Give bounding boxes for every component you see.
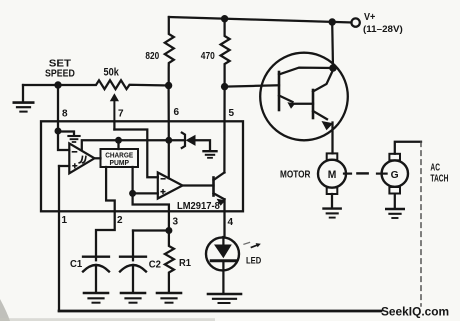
scan smudge bottom left xyxy=(0,299,10,321)
transistor internal Q xyxy=(214,173,226,238)
zener diode internal xyxy=(182,133,217,158)
wire ground to node xyxy=(23,84,58,86)
node pot-820 junction xyxy=(165,82,172,89)
op-amp U1b xyxy=(158,173,183,199)
transistor Q2 xyxy=(313,70,333,153)
shaft dash xyxy=(357,172,367,174)
pin 7 xyxy=(114,109,124,130)
op-amp U1a input comparator xyxy=(58,131,95,173)
svg-text:R1: R1 xyxy=(179,258,191,269)
wire bottom tach return rail xyxy=(59,310,381,313)
wire G to tach bus xyxy=(395,142,421,154)
LED light arrows xyxy=(244,242,261,247)
svg-text:8: 8 xyxy=(62,109,68,120)
label SET SPEED xyxy=(45,58,75,79)
label AC TACH xyxy=(430,163,448,185)
svg-text:6: 6 xyxy=(174,107,180,118)
wire op-amp1 output to pump xyxy=(95,157,101,159)
charge pump box xyxy=(101,149,139,167)
svg-text:4: 4 xyxy=(228,217,234,228)
node pump output xyxy=(129,190,136,197)
svg-text:MOTOR: MOTOR xyxy=(280,170,311,181)
node pin6 zener junction xyxy=(165,137,172,144)
LED D1 xyxy=(206,237,261,303)
transistor Q1 xyxy=(279,68,333,110)
svg-text:(11–28V): (11–28V) xyxy=(363,24,403,35)
svg-text:SPEED: SPEED xyxy=(45,69,75,80)
capacitor C1 xyxy=(70,257,109,303)
svg-text:V+: V+ xyxy=(364,12,375,23)
pin 6 wire xyxy=(169,86,180,141)
svg-text:AC: AC xyxy=(430,163,440,174)
wire pump to pin2 xyxy=(96,167,115,260)
node pin8 internal xyxy=(55,128,62,135)
svg-text:1: 1 xyxy=(62,215,68,226)
ground internal pin8 xyxy=(58,132,80,143)
wire op-amp top feedback to zener rail xyxy=(82,140,185,150)
wire op-amp2 out to transistor base xyxy=(183,184,214,186)
svg-text:SeekIQ.com: SeekIQ.com xyxy=(381,304,449,318)
pin 1 wire xyxy=(59,166,68,311)
terminal V+ xyxy=(351,12,402,35)
wire charge pump top drop xyxy=(117,140,119,149)
svg-text:470: 470 xyxy=(201,51,215,62)
resistor 470 xyxy=(201,19,230,87)
node collector junction xyxy=(329,64,337,72)
capacitor C2 xyxy=(120,231,169,303)
potentiometer 50k xyxy=(58,67,169,122)
darlington transistor circle xyxy=(260,53,348,141)
svg-text:3: 3 xyxy=(173,216,179,227)
wire top supply rail xyxy=(169,17,352,23)
svg-text:LED: LED xyxy=(246,256,261,267)
svg-text:M: M xyxy=(328,169,337,181)
wire pin6 into op-amp2 xyxy=(168,140,170,178)
svg-text:5: 5 xyxy=(229,108,235,119)
node charge pump top xyxy=(115,137,122,144)
ground set-speed xyxy=(14,85,33,112)
motor M xyxy=(280,153,351,217)
svg-text:820: 820 xyxy=(145,51,159,62)
wire base from 470 node xyxy=(225,85,279,86)
wire V+ to collector node xyxy=(331,22,334,68)
IC box LM2917-8 xyxy=(41,121,243,211)
wire pin7 to op-amp2 inverting xyxy=(114,130,157,178)
svg-text:LM2917-8: LM2917-8 xyxy=(177,201,220,212)
svg-text:C2: C2 xyxy=(149,260,162,271)
svg-text:PUMP: PUMP xyxy=(110,158,130,167)
svg-text:7: 7 xyxy=(118,109,124,120)
resistor 820 xyxy=(145,17,173,86)
generator G tach xyxy=(377,154,408,218)
svg-text:G: G xyxy=(391,170,399,181)
node junction 470 top xyxy=(221,15,228,22)
svg-text:50k: 50k xyxy=(104,67,119,79)
node 470-base junction xyxy=(221,83,228,90)
node pin3 junction xyxy=(165,227,172,234)
tach boundary dashed line xyxy=(420,142,422,306)
svg-text:TACH: TACH xyxy=(430,173,448,184)
svg-text:C1: C1 xyxy=(70,259,83,270)
node junction darlington top xyxy=(329,18,336,25)
svg-text:2: 2 xyxy=(117,215,123,226)
pin 5 wire xyxy=(224,87,234,173)
pin 8 xyxy=(58,85,68,131)
node set-speed junction xyxy=(54,81,61,88)
resistor R1 xyxy=(157,231,191,303)
wire pump to op-amp2 plus and pin3 xyxy=(133,167,169,231)
